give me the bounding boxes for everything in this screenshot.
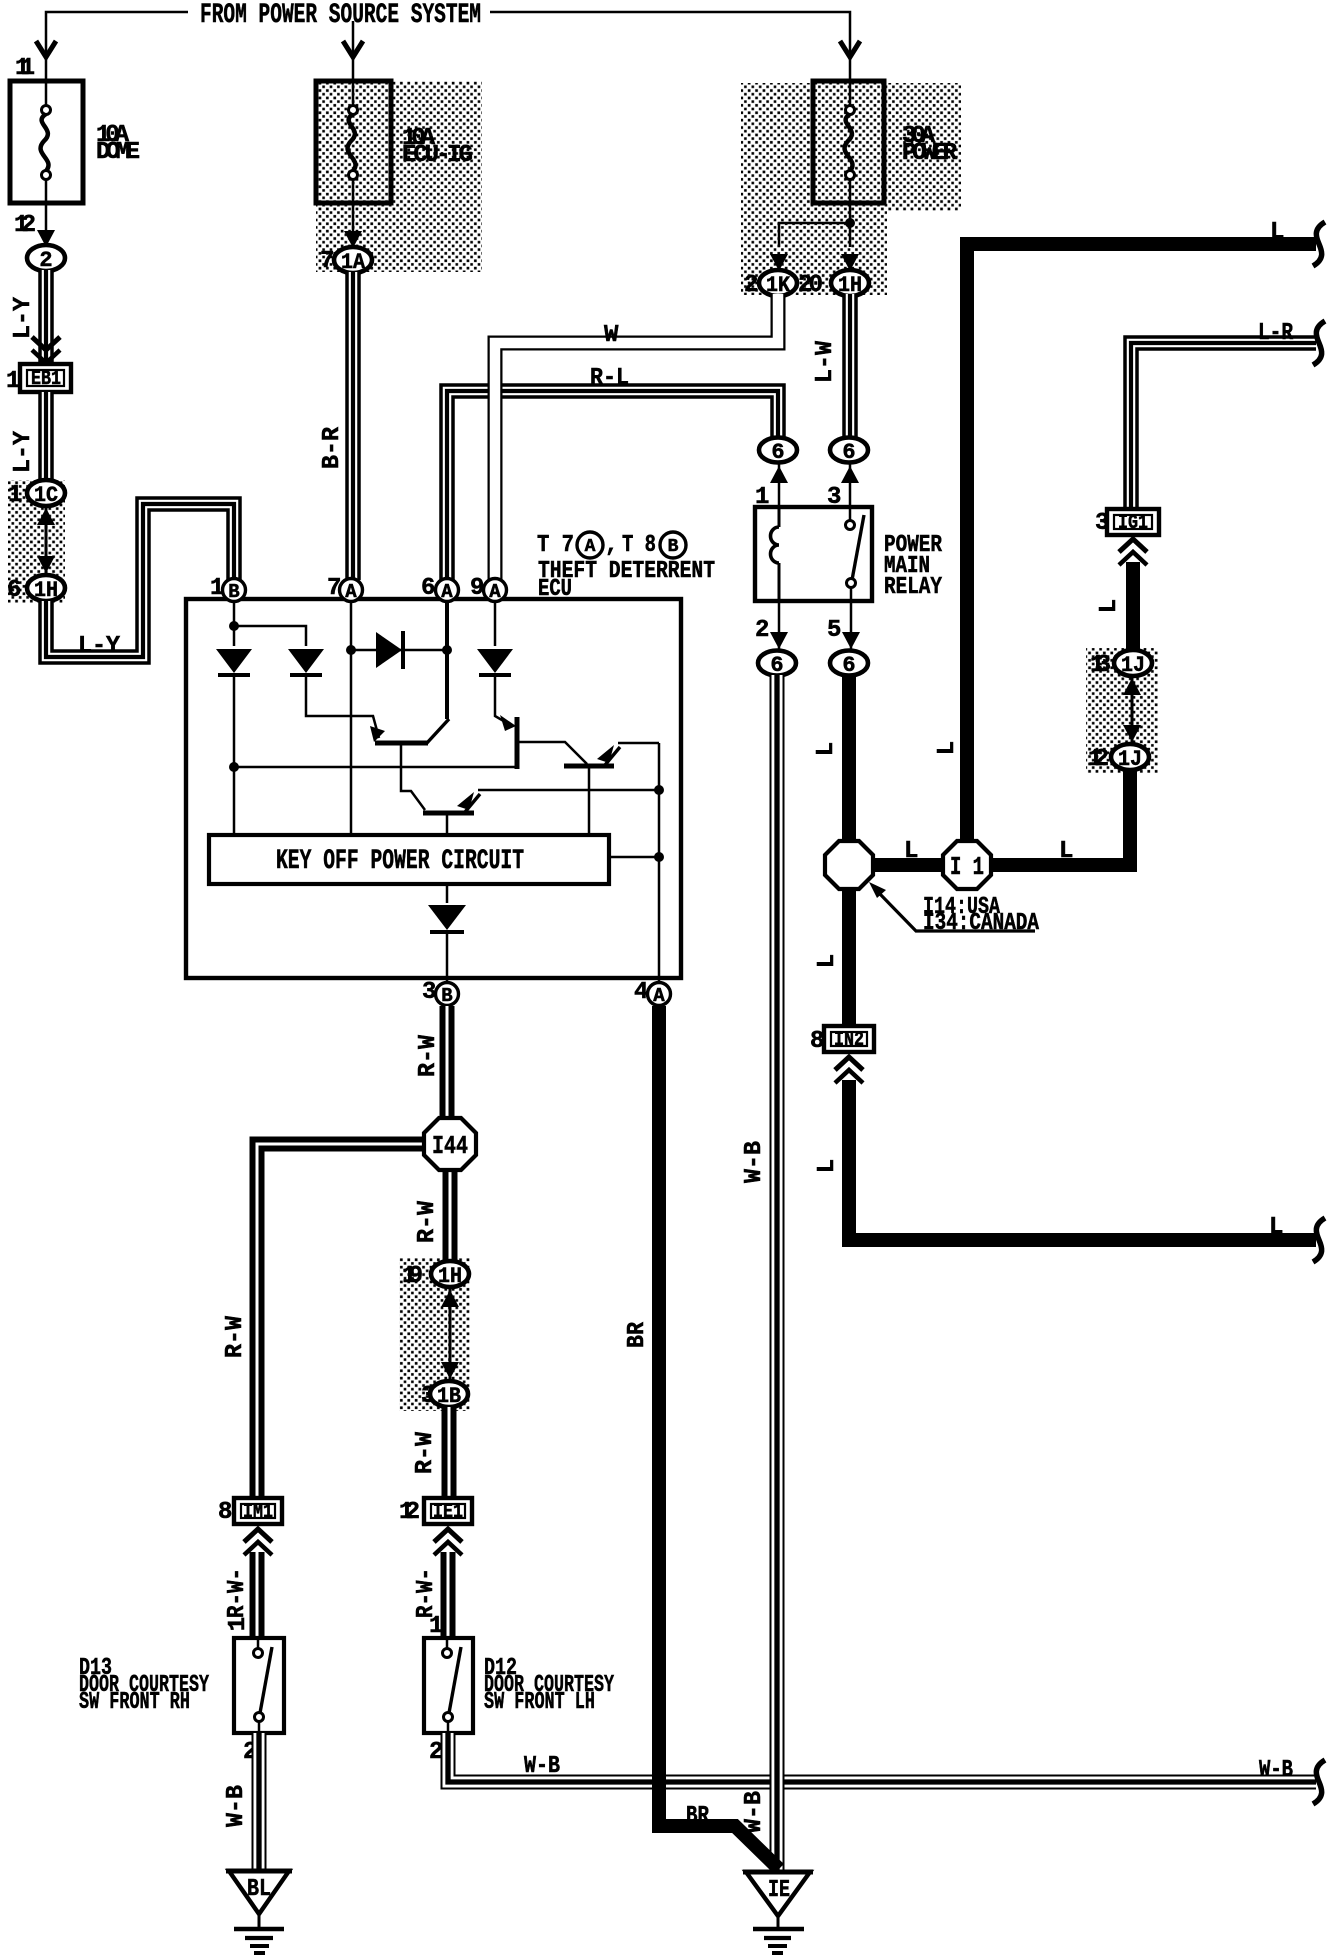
svg-text:DOME: DOME [96,139,140,166]
connector 6 (bottom-left oval) [758,651,796,676]
connector 12-1J (oval) [1111,744,1149,770]
wire: branch to connector 1K [779,223,850,247]
octagon I14/I34 (blank) [825,841,873,889]
svg-text:2: 2 [755,617,769,644]
svg-text:1H: 1H [34,578,58,603]
svg-text:W-B: W-B [741,1141,768,1183]
arrow into POWER fuse [840,41,860,57]
relay switch [849,507,852,520]
ECU pin 9A [484,579,507,602]
svg-text:1C: 1C [34,483,58,508]
wire L: top horizontal to right edge [967,237,1316,251]
svg-text:L: L [814,954,841,968]
connector 6 (top-left oval) [759,438,797,463]
connector IG1 [1107,509,1159,535]
connector 2 (oval) [27,245,65,271]
ground IE [743,1872,813,1953]
svg-text:ECU-IG: ECU-IG [402,142,473,169]
svg-text:SW FRONT LH: SW FRONT LH [484,1689,595,1716]
label: T 7(A),T 8(B) THEFT DETERRENT ECU [537,532,686,559]
svg-text:2: 2 [39,248,52,273]
arrow into connector 2 [37,230,55,247]
svg-text:B: B [668,537,679,557]
branch wire to diode D2 [234,626,306,646]
svg-text:L: L [1059,838,1073,865]
arrow up into 1C [37,508,55,525]
wire R-W: ECU pin 3B to octagon I44 [440,1006,455,1121]
diode D1 [216,649,252,673]
wire L: octagon I14 down to IN2 [842,887,856,1026]
svg-text:1H: 1H [438,1264,462,1289]
connector 1A (oval) [334,247,372,273]
arrow into DOME fuse [36,41,56,57]
svg-text:KEY OFF POWER CIRCUIT: KEY OFF POWER CIRCUIT [276,846,524,877]
wire L: relay pin5 connector down to octagon I14/I34 [842,675,856,843]
svg-text:W-B: W-B [524,1753,560,1780]
wire: relay pin 2 to connector 6 [778,601,781,653]
wire from pin 1B down [233,601,236,646]
svg-text:4: 4 [634,979,648,1006]
arrow into ECU-IG fuse [343,41,363,57]
svg-text:EB1: EB1 [31,368,61,391]
diode D4 [477,649,513,673]
arrow down into connector 6 (pin2 bottom) [770,632,788,649]
svg-text:R-W: R-W [222,1315,249,1358]
transistor Q2 (vertical bar) [515,717,520,769]
junction dot fuse output [845,218,855,228]
svg-text:7: 7 [327,575,341,602]
svg-text:R-W: R-W [414,1200,441,1243]
wire L-Y: 1H to ECU pin 1B [46,504,234,657]
connector 1C (oval) [27,480,65,506]
wire L-W: connector 1H to relay connector 6 [842,294,858,438]
connector 13-1J (oval) [1114,650,1152,676]
svg-text:12: 12 [1088,746,1109,773]
octagon I44 [424,1118,476,1170]
svg-text:R-W: R-W [412,1431,439,1474]
svg-text:ECU: ECU [538,576,572,603]
D12 internals [446,1638,449,1649]
svg-text:6: 6 [842,653,855,678]
wire L: vertical from top to octagon I1 [960,237,974,843]
arrowhead into Q2 bar [500,715,516,731]
svg-text:R-W-: R-W- [224,1568,251,1618]
svg-text:POWER: POWER [902,140,958,167]
arrow down into 3-1B [441,1362,459,1379]
arrow up into 13-1J [1123,678,1141,695]
svg-text:6: 6 [770,653,783,678]
svg-text:FROM POWER SOURCE SYSTEM: FROM POWER SOURCE SYSTEM [200,0,481,31]
arrowhead into Q1 base bar [370,726,385,742]
wire B-R: connector 1A to ECU pin 7A [345,272,361,580]
continuation arc bottom L [1313,1218,1325,1262]
svg-text:IE: IE [768,1877,790,1904]
wire from D2 to Q1 base [306,677,379,738]
connector 1K (oval) [759,270,797,296]
arrow up into connector 6 (pin1 top) [770,466,788,483]
wire: connector 6 to relay pin 3 [849,460,852,507]
connector IE1 [424,1498,472,1524]
switch D12 box [424,1638,473,1733]
arrow into connector 1H [841,254,859,271]
arrow (double chevron) up into IG1 [1119,539,1147,565]
svg-text:BR: BR [686,1803,709,1830]
svg-text:W-B: W-B [223,1785,250,1827]
arrow (double chevron) up into IE1 [434,1529,462,1555]
svg-text:R-W: R-W [415,1034,442,1077]
Q2 collector to Q4 [519,742,587,764]
ground BL [226,1871,292,1953]
svg-text:3: 3 [422,979,436,1006]
wire: drop to ECU-IG fuse [352,21,355,81]
svg-text:L-R: L-R [1258,320,1293,347]
svg-text:1A: 1A [341,250,366,275]
svg-text:9: 9 [470,575,484,602]
connector 6 (bottom-right oval) [830,651,868,676]
svg-text:W-B: W-B [1259,1757,1293,1784]
transistor Q3 [423,811,474,816]
wire R-W: IE1 down to switch D12 [441,1552,456,1640]
shading: 19-1H/3-1B junction block [399,1258,470,1411]
svg-text:IM1: IM1 [243,1501,273,1524]
wire L: octagon I1 right, up to connector 12-1J [988,768,1130,865]
wire from pin 7A down to key-off box [350,601,353,835]
junction dot on 7A line [346,645,356,655]
link wire between 13-1J and 12-1J [1131,676,1134,744]
arrow (double chevron) into EB1 [32,337,60,363]
ECU pin 6A [436,579,459,602]
shading: 13/12 1J junction block [1086,648,1158,773]
annotation arrow to I14 octagon [879,893,1035,931]
wire L-Y: EB1 to connector 1C [38,392,54,482]
svg-text:L-Y: L-Y [78,633,121,660]
wire from pin 6A down (main feed) [445,601,449,719]
link wire between 1C and 1H [45,506,48,575]
ECU box [186,599,681,978]
svg-text:SW FRONT RH: SW FRONT RH [79,1689,190,1716]
svg-text:A: A [441,581,453,603]
diode D5 below key-off box [446,884,449,903]
svg-text:A: A [653,985,665,1007]
diode D3 (horizontal) [351,649,447,652]
wire W-B: relay pin2 connector 6 down to ground IE [770,675,785,1872]
wire L: octagon I14 to octagon I1 [870,858,946,872]
arrow up into 19-1H [441,1290,459,1307]
wire L: IG1 down to connector 13-1J [1126,562,1140,651]
connector 19-1H (oval) [431,1261,469,1287]
continuation arc L-R [1313,321,1325,365]
shading: 1C/1H junction block [8,480,65,603]
continuation arc top L [1313,222,1325,266]
svg-text:BR: BR [624,1321,651,1348]
svg-text:L-W: L-W [812,340,839,383]
relay coil [778,507,781,527]
svg-text:A: A [585,537,596,557]
svg-text:B: B [441,985,452,1007]
arrow (double chevron) up into IM1 [244,1529,272,1555]
shading: 30A POWER fuse block [741,83,961,211]
arrow down into connector 6 (pin5 bottom) [842,632,860,649]
arrow (double chevron) up into IN2 [835,1057,863,1083]
svg-text:6: 6 [771,440,784,465]
wire R-W: IM1 down to switch D13 [250,1552,265,1640]
arrow into connector 1K [770,254,788,271]
svg-text:5: 5 [827,617,841,644]
svg-text:20: 20 [798,272,823,299]
svg-text:8: 8 [218,1499,232,1526]
svg-text:,: , [605,533,618,558]
fuse F1 10A DOME [10,81,83,203]
svg-text:I34:CANADA: I34:CANADA [923,910,1039,937]
wire pin 4A vertical [658,743,661,983]
svg-text:2: 2 [744,272,758,299]
octagon I1 [943,841,991,889]
svg-text:R-L: R-L [590,365,629,392]
wire L-Y: connector 2 to EB1 [38,270,54,363]
junction dot 4A/key-off link [654,852,664,862]
svg-text:1B: 1B [437,1384,461,1409]
transistor Q1 [375,741,428,746]
wire L-R: IG1 up and right to edge [1131,343,1316,510]
svg-text:1: 1 [225,1617,252,1631]
svg-text:IN2: IN2 [834,1029,864,1052]
svg-text:1J: 1J [1118,747,1142,772]
svg-text:11: 11 [15,55,35,82]
wire: connector 6 to relay pin 1 [778,460,781,507]
connector 3-1B (oval) [430,1381,468,1407]
arrow up into connector 6 (pin3 top) [841,466,859,483]
relay box [755,507,872,601]
arrow down into 1H [37,556,55,573]
connector EB1 [20,364,71,392]
svg-text:L-Y: L-Y [10,296,37,339]
svg-text:1: 1 [210,575,224,602]
svg-text:L: L [904,838,918,865]
switch D13 box [234,1638,284,1733]
svg-text:L: L [1269,1214,1283,1241]
svg-text:A: A [345,581,357,603]
svg-text:12: 12 [14,212,36,239]
connector IN2 [824,1026,874,1052]
svg-text:L: L [814,1159,841,1173]
junction dot 4A/Q3 rail [654,785,664,795]
svg-text:W: W [604,322,619,349]
svg-text:19: 19 [402,1263,423,1290]
junction dot on 1B line (to D2 branch) [229,621,239,631]
svg-text:L: L [934,741,961,755]
fuse F3 30A POWER [813,81,884,203]
svg-text:L: L [1096,599,1123,613]
connector 1H (oval) [831,270,869,296]
transistor Q4 [564,764,614,769]
svg-text:I 1: I 1 [950,852,984,882]
svg-text:T 7: T 7 [537,532,574,559]
wire from pin 9A down [494,601,497,646]
svg-text:IE1: IE1 [433,1501,463,1524]
svg-text:B-R: B-R [319,426,346,469]
wire L: from below up into IN2 [849,1080,1316,1240]
svg-text:L: L [813,742,840,756]
link key-off box to 4A line [609,856,659,859]
svg-text:IG1: IG1 [1118,512,1148,535]
svg-text:12: 12 [399,1499,420,1526]
svg-text:RELAY: RELAY [884,574,942,601]
link wire between 19-1H and 3-1B [449,1288,452,1381]
ECU pin 4A [648,983,671,1006]
arrow into connector 1A [344,231,362,248]
Q2 base rail from 1B [234,766,515,769]
wire R-L: ECU pin 6A to relay connector 6 [447,391,778,580]
svg-text:A: A [489,581,501,603]
connector 1H lower (oval) [27,575,65,601]
svg-text:1J: 1J [1121,653,1145,678]
wire: relay pin 5 to connector 6 [850,601,853,653]
svg-text:13: 13 [1090,652,1111,679]
wire R-W: I44 left branch to IM1 [257,1144,428,1500]
svg-text:BL: BL [247,1876,271,1903]
wire W: connector 1K to ECU pin 9A [495,294,778,580]
wire BR: ECU pin 4A down to ground IE [659,1006,779,1869]
diode D2 [288,649,324,673]
svg-text:6: 6 [421,575,435,602]
svg-text:1: 1 [6,368,20,395]
D13 internals [257,1638,260,1649]
connector IM1 [234,1498,282,1524]
continuation arc W-B [1313,1760,1325,1804]
wire: from power source bus line [46,12,188,81]
svg-text:L-Y: L-Y [10,430,37,473]
svg-text:1: 1 [8,482,22,509]
wire W-B: D13 down to ground BL [252,1733,267,1872]
svg-text:R-W-: R-W- [413,1568,440,1618]
svg-text:6: 6 [842,440,855,465]
key off power circuit box [209,835,609,884]
wire W-B: D12 down and right to edge [448,1733,1316,1782]
wire: fuse POWER output [849,203,852,247]
fuse F2 10A ECU-IG [316,81,391,203]
wire: fuse DOME to connector 2 [45,203,48,243]
shading: ECU-IG fuse block [316,81,482,272]
ECU pin 1B [223,579,246,602]
ECU pin 7A [340,579,363,602]
svg-text:I44: I44 [432,1131,468,1161]
wire R-W: I44 down to connector 19-1H [443,1167,458,1264]
junction dot on 6A line [442,645,452,655]
arrow down into 12-1J [1123,725,1141,742]
ECU pin 3B [436,983,459,1006]
connector 6 (top-right oval) [830,438,868,463]
junction dot on 1B line (to Q2 base rail) [229,762,239,772]
svg-text:T 8: T 8 [622,532,656,559]
wire R-W: 3-1B down to IE1 [442,1407,457,1500]
svg-text:B: B [228,581,239,603]
svg-text:6: 6 [7,577,21,604]
wire: fuse ECU-IG to connector 1A [352,203,355,243]
svg-text:L: L [1270,219,1284,246]
